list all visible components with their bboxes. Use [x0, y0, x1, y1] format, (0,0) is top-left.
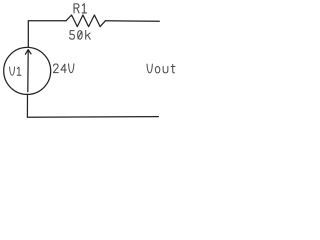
resistor R1	[66, 15, 105, 27]
wire	[28, 21, 66, 48]
arrow	[25, 50, 31, 92]
voltage source V1	[4, 47, 51, 94]
label 50k	[70, 30, 91, 39]
label 24V	[53, 64, 73, 73]
wire	[105, 20, 159, 22]
node Vout	[147, 64, 175, 73]
label R1	[74, 4, 86, 13]
label V1	[10, 67, 21, 75]
wire	[27, 95, 158, 118]
